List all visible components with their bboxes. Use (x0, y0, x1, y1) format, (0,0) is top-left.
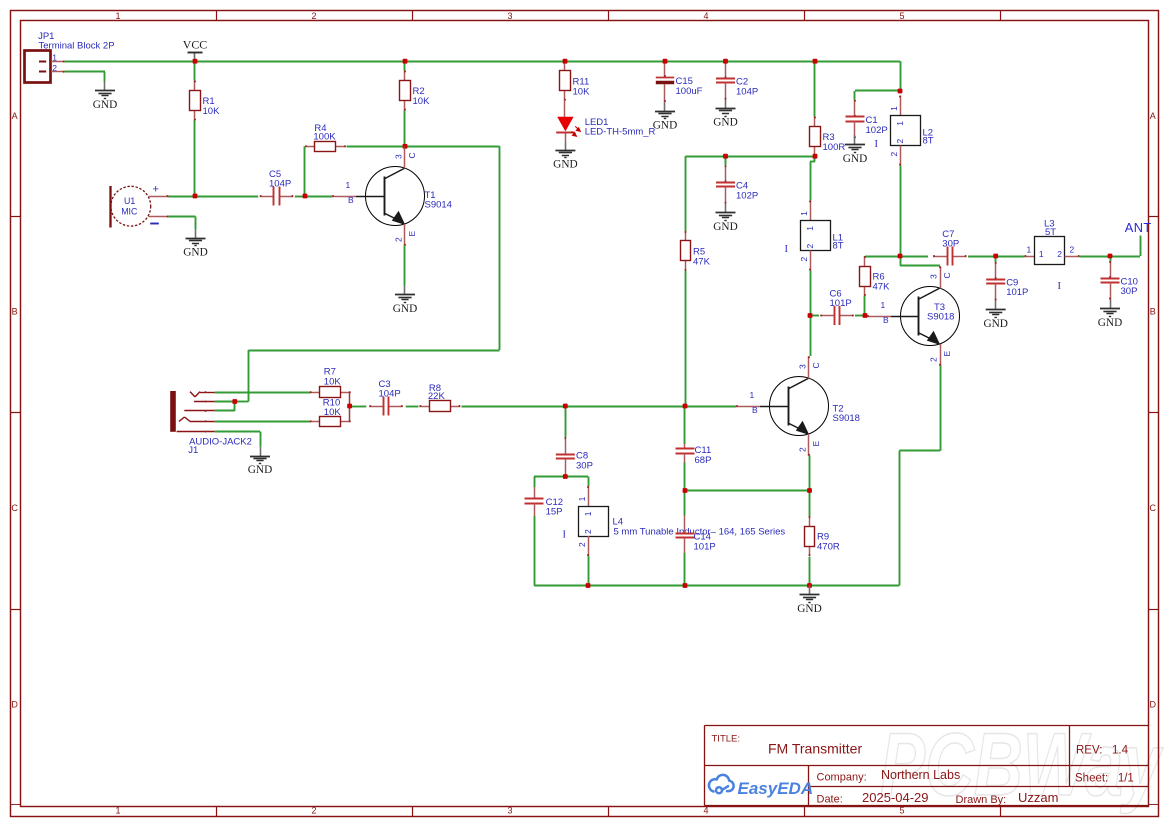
svg-text:I: I (875, 139, 879, 150)
svg-text:1: 1 (799, 211, 809, 216)
svg-text:4: 4 (703, 806, 708, 816)
svg-text:S9014: S9014 (425, 200, 452, 211)
svg-text:100R: 100R (823, 142, 846, 153)
svg-text:1: 1 (895, 121, 905, 126)
svg-text:B: B (1150, 307, 1156, 317)
svg-text:1: 1 (115, 806, 120, 816)
svg-text:Sheet: 1/1: Sheet: 1/1 (1075, 773, 1134, 785)
svg-text:2: 2 (805, 244, 815, 249)
svg-text:2: 2 (394, 237, 404, 242)
svg-text:GND: GND (843, 153, 867, 165)
svg-text:1: 1 (346, 180, 351, 190)
svg-text:1: 1 (881, 300, 886, 310)
svg-text:2: 2 (52, 63, 57, 73)
svg-text:J1: J1 (188, 445, 198, 456)
svg-text:1: 1 (1039, 249, 1044, 259)
svg-text:U1: U1 (124, 196, 135, 206)
svg-text:Drawn By:: Drawn By: (956, 794, 1007, 806)
svg-text:2: 2 (895, 139, 905, 144)
svg-text:ANT: ANT (1125, 220, 1152, 235)
svg-text:101P: 101P (830, 298, 852, 309)
svg-text:TITLE:: TITLE: (712, 734, 741, 745)
svg-text:I: I (785, 244, 789, 255)
svg-text:C: C (407, 152, 417, 158)
svg-text:30P: 30P (942, 238, 959, 249)
svg-text:GND: GND (713, 221, 737, 233)
svg-text:100K: 100K (313, 132, 336, 143)
svg-text:B: B (752, 405, 758, 415)
svg-text:+: + (153, 183, 159, 195)
svg-text:8T: 8T (833, 241, 844, 252)
svg-text:5T: 5T (1045, 227, 1056, 238)
svg-text:GND: GND (93, 99, 117, 111)
svg-text:102P: 102P (866, 125, 888, 136)
svg-text:FM Transmitter: FM Transmitter (768, 741, 862, 757)
svg-text:2: 2 (798, 447, 808, 452)
svg-text:GND: GND (393, 303, 417, 315)
svg-text:2: 2 (311, 806, 316, 816)
svg-text:15P: 15P (546, 507, 563, 518)
svg-text:1: 1 (115, 11, 120, 21)
svg-text:10K: 10K (413, 96, 431, 107)
svg-text:LED-TH-5mm_R: LED-TH-5mm_R (585, 127, 656, 138)
svg-text:10K: 10K (203, 106, 221, 117)
svg-text:GND: GND (183, 246, 207, 258)
svg-text:1: 1 (1027, 245, 1032, 255)
svg-text:1: 1 (577, 496, 587, 501)
svg-text:1: 1 (583, 511, 593, 516)
svg-text:30P: 30P (576, 461, 593, 472)
svg-text:100uF: 100uF (676, 86, 703, 97)
svg-text:3: 3 (929, 274, 939, 279)
svg-text:Terminal Block 2P: Terminal Block 2P (39, 41, 115, 52)
svg-text:3: 3 (798, 364, 808, 369)
svg-text:2: 2 (583, 529, 593, 534)
svg-text:104P: 104P (379, 388, 401, 399)
svg-text:3: 3 (507, 806, 512, 816)
svg-text:VCC: VCC (183, 38, 208, 52)
svg-text:2: 2 (799, 257, 809, 262)
svg-text:2: 2 (311, 11, 316, 21)
svg-text:I: I (1058, 281, 1062, 292)
svg-text:68P: 68P (695, 455, 712, 466)
svg-text:8T: 8T (923, 136, 934, 147)
svg-text:102P: 102P (736, 190, 758, 201)
svg-text:101P: 101P (1006, 287, 1028, 298)
svg-text:5: 5 (899, 11, 904, 21)
svg-text:104P: 104P (269, 178, 291, 189)
svg-text:D: D (1150, 700, 1157, 710)
svg-text:E: E (942, 351, 952, 357)
svg-text:47K: 47K (873, 282, 891, 293)
svg-text:GND: GND (713, 117, 737, 129)
svg-text:EasyEDA: EasyEDA (738, 779, 814, 798)
svg-text:MIC: MIC (121, 206, 138, 216)
svg-text:2: 2 (889, 152, 899, 157)
svg-text:2: 2 (929, 357, 939, 362)
svg-text:E: E (811, 441, 821, 447)
svg-text:GND: GND (797, 603, 821, 615)
svg-text:3: 3 (394, 154, 404, 159)
svg-text:A: A (12, 111, 18, 121)
svg-text:GND: GND (553, 159, 577, 171)
svg-text:C: C (942, 272, 952, 278)
svg-text:B: B (883, 315, 889, 325)
svg-text:22K: 22K (428, 391, 446, 402)
svg-text:470R: 470R (817, 542, 840, 553)
svg-text:Northern Labs: Northern Labs (881, 768, 960, 782)
svg-text:S9018: S9018 (927, 311, 954, 322)
svg-text:2: 2 (1070, 245, 1075, 255)
svg-text:REV: 1.4: REV: 1.4 (1076, 744, 1129, 756)
svg-text:104P: 104P (736, 86, 758, 97)
svg-text:Uzzam: Uzzam (1018, 790, 1058, 805)
svg-text:1: 1 (889, 106, 899, 111)
svg-text:GND: GND (653, 119, 677, 131)
svg-text:GND: GND (248, 464, 272, 476)
svg-text:I: I (563, 530, 567, 541)
svg-text:D: D (11, 700, 18, 710)
svg-text:S9018: S9018 (833, 413, 860, 424)
svg-text:2025-04-29: 2025-04-29 (862, 790, 929, 805)
svg-text:A: A (1150, 111, 1156, 121)
svg-text:Date:: Date: (817, 794, 843, 806)
svg-text:B: B (12, 307, 18, 317)
svg-text:1: 1 (750, 390, 755, 400)
svg-text:10K: 10K (324, 376, 342, 387)
svg-text:5: 5 (899, 806, 904, 816)
svg-text:GND: GND (1098, 317, 1122, 329)
svg-text:E: E (407, 231, 417, 237)
svg-text:AUDIO-JACK2: AUDIO-JACK2 (189, 437, 252, 448)
svg-text:3: 3 (507, 11, 512, 21)
svg-text:C: C (11, 503, 18, 513)
svg-text:GND: GND (983, 318, 1007, 330)
svg-text:101P: 101P (694, 542, 716, 553)
svg-text:30P: 30P (1121, 286, 1138, 297)
svg-text:2: 2 (577, 542, 587, 547)
svg-text:C: C (1150, 503, 1157, 513)
svg-text:10K: 10K (324, 407, 342, 418)
svg-text:4: 4 (703, 11, 708, 21)
svg-text:Company:: Company: (817, 772, 867, 784)
svg-text:1: 1 (52, 52, 57, 62)
svg-text:2: 2 (1057, 249, 1062, 259)
svg-text:C: C (811, 362, 821, 368)
svg-text:10K: 10K (573, 86, 591, 97)
svg-text:B: B (348, 195, 354, 205)
svg-text:47K: 47K (693, 257, 711, 268)
svg-text:1: 1 (805, 226, 815, 231)
